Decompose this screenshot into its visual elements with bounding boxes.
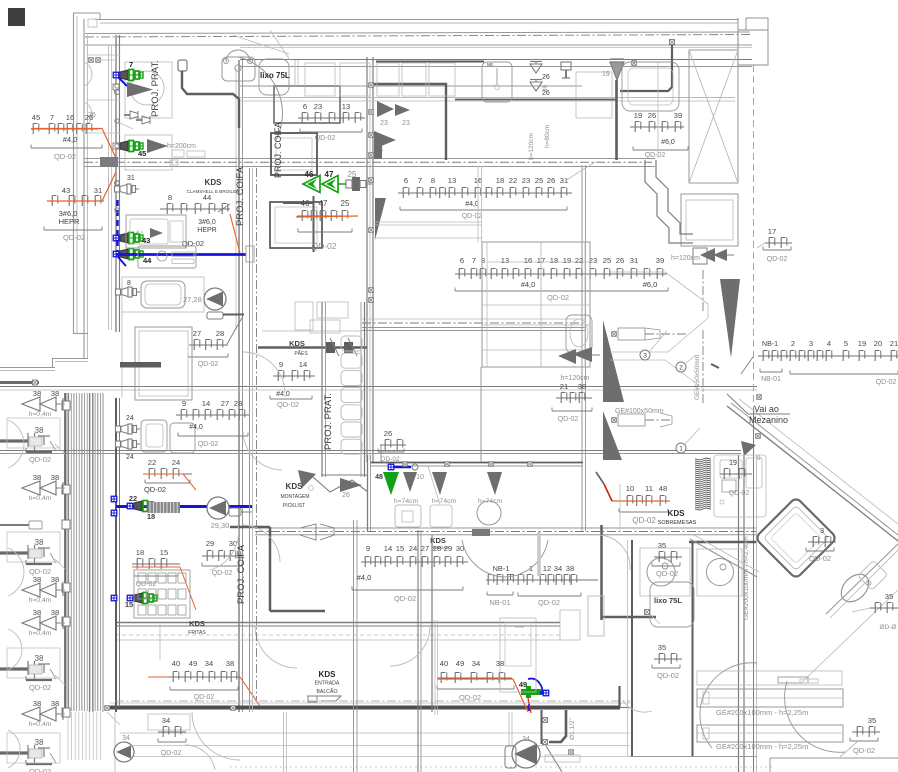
svg-text:38: 38: [35, 738, 44, 747]
svg-text:49: 49: [189, 659, 197, 668]
svg-text:QD-02: QD-02: [311, 241, 336, 251]
svg-text:18: 18: [147, 512, 155, 521]
svg-text:1: 1: [679, 446, 683, 453]
svg-text:NE: NE: [487, 62, 493, 67]
svg-text:GE#200x100mm - h=2,25m: GE#200x100mm - h=2,25m: [716, 708, 808, 717]
svg-text:16: 16: [66, 113, 74, 122]
svg-text:28: 28: [433, 544, 441, 553]
svg-text:7: 7: [50, 113, 54, 122]
svg-text:h=74cm: h=74cm: [432, 498, 457, 505]
svg-text:GE#200x100mm - h=2,25m: GE#200x100mm - h=2,25m: [716, 742, 808, 751]
svg-text:46: 46: [301, 199, 310, 208]
svg-text:3: 3: [820, 526, 824, 535]
svg-text:8: 8: [127, 280, 131, 287]
svg-text:35: 35: [868, 716, 876, 725]
svg-text:23: 23: [380, 120, 388, 127]
svg-text:GE#150x50mm: GE#150x50mm: [694, 355, 701, 400]
svg-text:13: 13: [501, 256, 509, 265]
svg-text:31: 31: [630, 256, 638, 265]
svg-text:6: 6: [303, 102, 307, 111]
svg-text:7: 7: [129, 60, 133, 69]
svg-text:15: 15: [160, 548, 168, 557]
svg-text:Vai ao: Vai ao: [754, 404, 779, 414]
svg-text:h=120cm: h=120cm: [528, 133, 535, 160]
svg-text:2: 2: [791, 339, 795, 348]
svg-text:QD-02: QD-02: [767, 256, 788, 263]
svg-text:19: 19: [563, 256, 571, 265]
svg-text:SOBREMESAS: SOBREMESAS: [658, 520, 697, 526]
svg-text:23: 23: [314, 102, 322, 111]
svg-text:35: 35: [885, 592, 893, 601]
svg-text:PÃES: PÃES: [294, 350, 308, 357]
svg-text:26: 26: [542, 74, 550, 81]
svg-text:h=80cm: h=80cm: [544, 125, 551, 148]
svg-text:QD-02: QD-02: [380, 456, 400, 463]
svg-text:38: 38: [51, 699, 59, 708]
svg-text:38: 38: [226, 659, 234, 668]
svg-text:29: 29: [206, 539, 214, 548]
svg-text:49: 49: [456, 659, 464, 668]
svg-text:QD-02: QD-02: [394, 594, 416, 603]
svg-text:22: 22: [509, 176, 517, 185]
svg-text:QD-02: QD-02: [198, 361, 219, 368]
svg-text:lixo 75L: lixo 75L: [260, 71, 290, 80]
svg-text:34: 34: [472, 659, 480, 668]
svg-text:45: 45: [32, 113, 40, 122]
svg-text:#4,0: #4,0: [63, 135, 78, 144]
svg-text:QD-02: QD-02: [54, 152, 76, 161]
svg-text:27: 27: [421, 544, 429, 553]
svg-text:24: 24: [172, 458, 180, 467]
svg-text:44: 44: [203, 193, 211, 202]
svg-text:#4,0: #4,0: [465, 201, 479, 208]
svg-text:GE#100x50mm: GE#100x50mm: [615, 408, 664, 415]
svg-text:ØD-Ø: ØD-Ø: [880, 624, 897, 631]
svg-text:22: 22: [575, 256, 583, 265]
svg-text:10: 10: [626, 484, 634, 493]
svg-text:6: 6: [460, 256, 464, 265]
svg-text:26: 26: [648, 111, 656, 120]
svg-text:26: 26: [616, 256, 624, 265]
svg-text:h=200cm: h=200cm: [167, 143, 196, 150]
svg-text:28: 28: [234, 399, 242, 408]
svg-text:#4,0: #4,0: [521, 280, 536, 289]
svg-text:QD-02: QD-02: [547, 293, 569, 302]
svg-text:9: 9: [279, 360, 283, 369]
svg-text:21: 21: [890, 339, 898, 348]
svg-text:29: 29: [444, 544, 452, 553]
svg-text:QD-02: QD-02: [161, 750, 182, 757]
svg-text:26: 26: [547, 176, 555, 185]
svg-text:26: 26: [85, 113, 93, 122]
svg-text:31: 31: [560, 176, 568, 185]
svg-text:26: 26: [342, 492, 350, 499]
svg-text:#4,0: #4,0: [357, 573, 372, 582]
svg-text:7: 7: [472, 256, 476, 265]
svg-text:39: 39: [656, 256, 664, 265]
svg-text:4 >: 4 >: [136, 230, 143, 236]
svg-text:HEPR: HEPR: [197, 227, 216, 234]
svg-text:PROJ. COIFA: PROJ. COIFA: [273, 122, 283, 178]
svg-text:38: 38: [578, 382, 586, 391]
svg-text:KDS: KDS: [319, 670, 337, 679]
svg-text:9: 9: [757, 455, 761, 462]
svg-text:31: 31: [94, 186, 102, 195]
svg-text:35: 35: [658, 541, 666, 550]
svg-text:16: 16: [524, 256, 532, 265]
svg-text:QD-02: QD-02: [29, 567, 51, 576]
svg-text:QD-02: QD-02: [729, 490, 750, 497]
svg-text:35: 35: [658, 643, 666, 652]
svg-text:PROJ. PRAT.: PROJ. PRAT.: [150, 60, 161, 117]
svg-text:h=74cm: h=74cm: [394, 498, 419, 505]
svg-text:19: 19: [729, 460, 737, 467]
svg-text:14: 14: [299, 360, 307, 369]
svg-text:QD-02: QD-02: [645, 152, 666, 159]
svg-text:QD-02: QD-02: [212, 570, 233, 577]
svg-text:38: 38: [51, 473, 59, 482]
svg-text:22: 22: [129, 494, 137, 503]
svg-text:QD-02: QD-02: [632, 516, 656, 525]
svg-text:vitrine: vitrine: [514, 625, 523, 629]
svg-text:38: 38: [35, 538, 44, 547]
svg-text:QD-02: QD-02: [538, 598, 560, 607]
svg-text:GE#200x100mm - h=2,40m: GE#200x100mm - h=2,40m: [743, 536, 750, 620]
svg-text:18: 18: [136, 548, 144, 557]
svg-text:20: 20: [874, 339, 882, 348]
svg-text:CLAMSHELL E BROILER: CLAMSHELL E BROILER: [187, 189, 241, 194]
svg-text:QD-02: QD-02: [558, 416, 579, 423]
svg-text:45: 45: [138, 149, 146, 158]
svg-text:31: 31: [127, 175, 135, 182]
svg-text:13: 13: [448, 176, 456, 185]
svg-text:38: 38: [51, 575, 59, 584]
svg-text:4: 4: [827, 339, 831, 348]
svg-text:PROJ. COIFA: PROJ. COIFA: [236, 544, 247, 604]
svg-text:38: 38: [51, 608, 59, 617]
svg-text:QD-02: QD-02: [876, 379, 897, 386]
svg-text:KDS: KDS: [189, 619, 205, 628]
svg-text:25: 25: [341, 199, 350, 208]
svg-text:25: 25: [535, 176, 543, 185]
svg-text:14: 14: [202, 399, 210, 408]
svg-text:39: 39: [542, 84, 549, 92]
svg-text:27: 27: [221, 399, 229, 408]
svg-text:KDS: KDS: [286, 482, 304, 491]
svg-text:9: 9: [182, 399, 186, 408]
svg-text:h=0,4m: h=0,4m: [29, 630, 52, 637]
svg-text:19: 19: [858, 339, 866, 348]
svg-text:26: 26: [384, 429, 392, 438]
svg-text:QD-02: QD-02: [459, 693, 481, 702]
svg-text:29,30: 29,30: [211, 521, 230, 530]
svg-text:24: 24: [126, 415, 134, 422]
svg-text:23: 23: [522, 176, 530, 185]
svg-text:h=120cm: h=120cm: [671, 255, 700, 262]
svg-text:3#6,0: 3#6,0: [198, 219, 216, 226]
svg-text:28: 28: [216, 329, 224, 338]
svg-text:QD-02: QD-02: [809, 554, 831, 563]
svg-text:PROJ. PRAT.: PROJ. PRAT.: [323, 393, 334, 450]
svg-text:QD-02: QD-02: [315, 135, 336, 142]
svg-text:10: 10: [416, 474, 424, 481]
svg-text:5: 5: [844, 339, 848, 348]
svg-text:h=0,4m: h=0,4m: [29, 597, 52, 604]
svg-text:44: 44: [143, 256, 152, 265]
svg-text:21: 21: [560, 382, 568, 391]
svg-text:39: 39: [674, 111, 682, 120]
svg-text:7: 7: [418, 176, 422, 185]
svg-text:MONTAGEM: MONTAGEM: [280, 494, 309, 500]
svg-text:QD-02: QD-02: [29, 683, 51, 692]
svg-text:24: 24: [409, 544, 417, 553]
svg-text:NB-01: NB-01: [761, 376, 781, 383]
svg-text:NB-1: NB-1: [492, 564, 509, 573]
svg-text:QD-02: QD-02: [194, 694, 215, 701]
svg-text:BALCÃO: BALCÃO: [316, 688, 337, 695]
svg-text:FRITAS: FRITAS: [188, 630, 206, 636]
svg-text:KDS: KDS: [289, 339, 305, 348]
svg-text:#4,0: #4,0: [189, 424, 203, 431]
svg-text:23: 23: [402, 120, 410, 127]
svg-text:QD-02: QD-02: [29, 767, 51, 772]
svg-text:lixo 75L: lixo 75L: [654, 596, 682, 605]
svg-text:HEPR: HEPR: [59, 217, 80, 226]
svg-text:KDS: KDS: [205, 178, 223, 187]
svg-text:QD-02: QD-02: [29, 455, 51, 464]
svg-text:8: 8: [168, 193, 172, 202]
svg-text:38: 38: [566, 564, 574, 573]
svg-text:h=120cm: h=120cm: [561, 375, 590, 382]
svg-text:QD-02: QD-02: [63, 233, 85, 242]
svg-text:49: 49: [519, 680, 527, 689]
svg-text:2: 2: [679, 365, 683, 372]
svg-text:14: 14: [384, 544, 392, 553]
svg-text:22: 22: [148, 458, 156, 467]
svg-text:PROJ. COIFA: PROJ. COIFA: [235, 166, 246, 226]
svg-text:9: 9: [366, 544, 370, 553]
svg-text:#6,0: #6,0: [643, 280, 658, 289]
svg-text:25: 25: [603, 256, 611, 265]
svg-text:#6,0: #6,0: [661, 139, 675, 146]
svg-text:34: 34: [162, 716, 170, 725]
svg-text:NB-1: NB-1: [762, 341, 778, 348]
svg-text:27: 27: [193, 329, 201, 338]
svg-text:34: 34: [554, 564, 562, 573]
svg-text:13: 13: [342, 102, 350, 111]
svg-text:12: 12: [543, 564, 551, 573]
svg-text:QD-02: QD-02: [656, 569, 678, 578]
svg-text:h=0,4m: h=0,4m: [29, 411, 52, 418]
svg-text:QD-02: QD-02: [657, 671, 679, 680]
svg-text:38: 38: [35, 654, 44, 663]
svg-text:34: 34: [205, 659, 213, 668]
svg-text:QD-02: QD-02: [277, 400, 299, 409]
svg-text:QD-02: QD-02: [462, 213, 483, 220]
svg-text:48: 48: [659, 484, 667, 493]
svg-text:NB-01: NB-01: [489, 598, 510, 607]
svg-text:46: 46: [305, 170, 314, 179]
svg-text:QD-02: QD-02: [198, 441, 219, 448]
svg-text:h=0,4m: h=0,4m: [29, 495, 52, 502]
svg-text:QD-02: QD-02: [853, 746, 875, 755]
svg-text:6: 6: [404, 176, 408, 185]
svg-text:18: 18: [550, 256, 558, 265]
svg-text:Ø1.1/2": Ø1.1/2": [569, 717, 576, 740]
svg-text:KDS: KDS: [668, 509, 686, 518]
svg-text:h=0,4m: h=0,4m: [29, 721, 52, 728]
svg-text:40: 40: [440, 659, 448, 668]
svg-text:40: 40: [172, 659, 180, 668]
svg-text:27,28: 27,28: [183, 295, 202, 304]
svg-text:34: 34: [122, 735, 130, 742]
svg-text:ENTRADA: ENTRADA: [315, 681, 340, 687]
svg-text:47: 47: [319, 199, 328, 208]
svg-text:19: 19: [602, 71, 610, 78]
svg-text:24: 24: [126, 454, 134, 461]
svg-text:QD-02: QD-02: [182, 239, 204, 248]
svg-text:38: 38: [35, 426, 44, 435]
svg-text:18: 18: [496, 176, 504, 185]
svg-text:PICKLIST: PICKLIST: [283, 503, 305, 509]
svg-text:11: 11: [645, 484, 653, 493]
svg-text:43: 43: [62, 186, 70, 195]
svg-text:38: 38: [51, 389, 59, 398]
svg-text:15: 15: [396, 544, 404, 553]
svg-text:17: 17: [768, 227, 776, 236]
svg-text:#4,0: #4,0: [276, 391, 290, 398]
svg-text:3: 3: [643, 353, 647, 360]
svg-text:48: 48: [375, 474, 383, 481]
svg-text:Mezanino: Mezanino: [749, 415, 788, 425]
svg-text:3: 3: [809, 339, 813, 348]
svg-text:8: 8: [431, 176, 435, 185]
svg-text:19: 19: [634, 111, 642, 120]
svg-text:QD-02: QD-02: [144, 485, 166, 494]
